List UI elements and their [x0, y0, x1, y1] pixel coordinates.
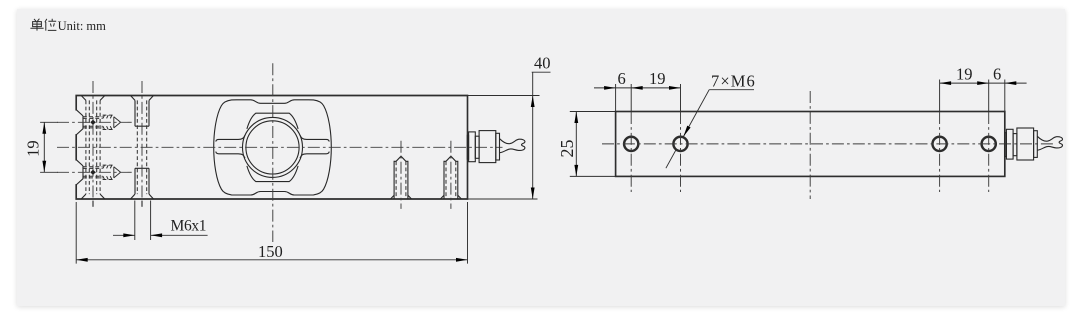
vertical hole 2 top countersink	[131, 96, 154, 101]
svg-text:6: 6	[618, 69, 626, 88]
dimension 19 left view	[24, 122, 47, 172]
top cap over center hole	[247, 113, 298, 129]
cable gland right view	[1005, 128, 1037, 160]
tower 2 centerline	[450, 141, 452, 209]
svg-text:7×M6: 7×M6	[711, 72, 756, 91]
unit label 单位 (drawn strokes)	[30, 19, 56, 31]
tapped hole C	[932, 136, 948, 152]
svg-text:Unit: mm: Unit: mm	[58, 19, 107, 33]
tapped hole B	[673, 136, 689, 152]
svg-text:19: 19	[24, 140, 43, 157]
vertical hole 2 centerline	[141, 81, 143, 199]
middle hole centerline	[809, 91, 811, 199]
plate horizontal centerline	[602, 143, 1056, 145]
vertical hole 2 counterbore bottom	[135, 168, 149, 194]
hole C centerline	[939, 80, 941, 113]
tapped hole D	[981, 136, 997, 152]
vertical hole 1 centerline	[92, 81, 94, 199]
svg-text:40: 40	[534, 54, 551, 73]
vertical hole 2 counterbore top	[135, 100, 149, 126]
center hole vertical centerline	[272, 63, 274, 242]
tapped hole A	[623, 136, 639, 152]
svg-text:150: 150	[258, 242, 283, 261]
plate outline	[616, 112, 1005, 177]
dimension M6x1	[113, 201, 208, 241]
center hole outer circle	[243, 117, 303, 177]
vertical hole 1 hidden walls	[86, 100, 100, 194]
center hole inner circle	[246, 121, 299, 174]
lower side stud M6 hidden outline	[40, 165, 134, 179]
lower stud centerline	[57, 171, 135, 173]
dimension 6 left	[594, 69, 631, 112]
vertical hole 1 thread hidden lines	[89, 100, 96, 194]
lower mount hole countersink notch on left face	[76, 160, 83, 185]
central boss outline	[214, 100, 332, 195]
vertical hole 1 bottom countersink	[81, 194, 105, 199]
tower 1 centerline	[400, 141, 402, 209]
hole B centerline	[680, 84, 682, 112]
main horizontal centerline	[57, 146, 503, 148]
vertical hole 2 bottom countersink	[131, 194, 154, 199]
svg-text:6: 6	[993, 65, 1001, 84]
dimension 19 left	[631, 69, 680, 90]
dimension 19 right	[940, 65, 989, 85]
dimension 40	[468, 54, 551, 200]
right relief groove	[300, 135, 329, 158]
cable right view	[1037, 136, 1062, 150]
load cell body outline	[76, 96, 467, 200]
lower stud center junction dot	[90, 170, 95, 175]
upper stud center junction dot	[90, 120, 95, 125]
hole A centerline	[630, 84, 632, 112]
bottom tapped hole tower 2	[441, 141, 462, 209]
svg-text:25: 25	[557, 140, 577, 158]
hole D centerline	[988, 80, 990, 113]
cable left view	[500, 139, 525, 153]
vertical hole 2 thread hidden walls	[137, 100, 146, 194]
label 7xM6 leader	[666, 72, 756, 169]
dimension 25	[557, 112, 578, 177]
upper side stud M6 hidden outline	[40, 115, 134, 129]
vertical hole 1 top countersink	[81, 96, 105, 101]
svg-text:M6x1: M6x1	[171, 217, 207, 234]
dimension 6 right	[989, 65, 1027, 112]
cable gland left view	[467, 131, 499, 163]
bottom tapped hole tower 1	[391, 141, 412, 209]
left relief groove	[216, 135, 245, 158]
bottom cap under center hole	[247, 166, 298, 182]
svg-text:19: 19	[649, 69, 666, 88]
svg-text:19: 19	[956, 65, 973, 84]
upper stud centerline	[57, 121, 135, 123]
dimension 150	[76, 202, 467, 264]
upper mount hole countersink notch on left face	[76, 110, 83, 135]
plate edge extension lines for dim 25	[570, 112, 616, 177]
